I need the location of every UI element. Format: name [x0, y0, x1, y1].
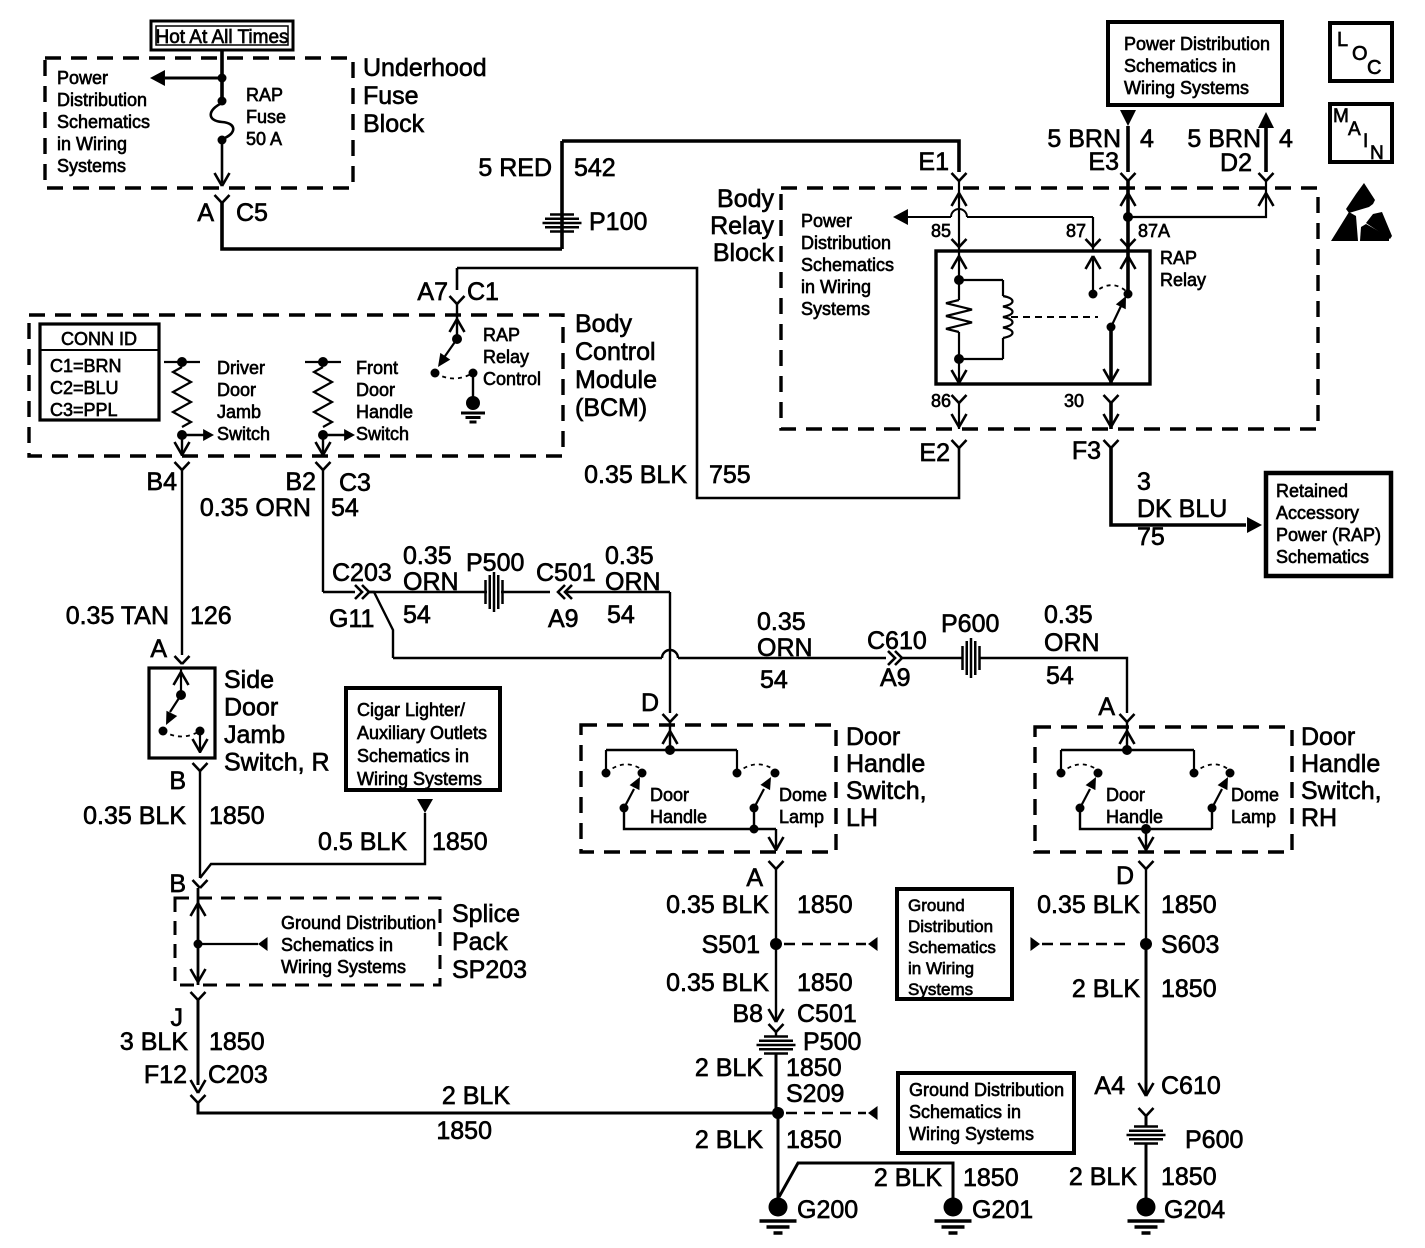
node relay 85 junction	[954, 275, 964, 285]
svg-text:C501: C501	[797, 1000, 857, 1028]
svg-text:Distribution: Distribution	[801, 233, 891, 253]
wire S501 to B8	[775, 944, 777, 1022]
wire S209 to G200	[777, 1113, 780, 1198]
svg-text:1850: 1850	[963, 1164, 1019, 1192]
svg-text:B8: B8	[732, 1000, 763, 1028]
svg-text:2 BLK: 2 BLK	[1072, 975, 1140, 1003]
reference box Ground Distribution Schematics in Wiring Systems	[897, 889, 1012, 999]
svg-text:ORN: ORN	[757, 634, 813, 662]
label Door Handle Switch LH	[846, 723, 927, 832]
svg-text:Handle: Handle	[846, 750, 925, 778]
svg-text:5 BRN: 5 BRN	[1187, 125, 1261, 153]
svg-text:C203: C203	[208, 1061, 268, 1089]
dashed link S603	[1030, 937, 1130, 951]
svg-text:Dome: Dome	[1231, 785, 1279, 805]
svg-text:DK BLU: DK BLU	[1137, 495, 1227, 523]
legend box LOC	[1330, 23, 1392, 81]
svg-text:A9: A9	[548, 605, 579, 633]
wire 0.35 TAN 126	[181, 470, 183, 655]
relay resistor	[946, 280, 972, 359]
label 0.35 BLK 1850 LH	[666, 891, 852, 919]
svg-text:4: 4	[1279, 125, 1293, 153]
svg-text:2 BLK: 2 BLK	[695, 1054, 763, 1082]
svg-text:E2: E2	[919, 439, 950, 467]
connector B side door	[169, 763, 207, 795]
svg-text:in Wiring: in Wiring	[801, 277, 871, 297]
wire pivot to pin 30	[1104, 327, 1119, 384]
svg-text:Schematics: Schematics	[1276, 547, 1369, 567]
svg-text:C2=BLU: C2=BLU	[50, 378, 119, 398]
ground in BCM	[461, 373, 485, 422]
svg-text:54: 54	[1046, 662, 1074, 690]
connector D2	[1220, 149, 1273, 181]
wire 2 BLK 1850 to S209	[198, 1103, 778, 1113]
wire P600 to A	[979, 658, 1127, 713]
svg-text:Schematics: Schematics	[57, 112, 150, 132]
in-arrow below D2	[1259, 193, 1274, 206]
svg-text:RAP: RAP	[246, 85, 283, 105]
wire 3 DK BLU 75	[1111, 448, 1262, 533]
label Door Handle Switch RH	[1301, 723, 1382, 832]
label Side Door Jamb Switch R	[224, 666, 330, 777]
label 0.35 BLK 1850 RH	[1037, 891, 1216, 919]
connector E3	[1088, 148, 1135, 181]
svg-text:E1: E1	[918, 148, 949, 176]
wire RH switch out	[1139, 829, 1154, 851]
svg-text:F12: F12	[144, 1061, 187, 1089]
body relay block dashed box	[781, 188, 1318, 429]
svg-text:M: M	[1333, 106, 1349, 127]
svg-text:Door: Door	[217, 380, 256, 400]
svg-text:3: 3	[1137, 468, 1151, 496]
svg-text:Switch, R: Switch, R	[224, 749, 330, 777]
connector A door handle LH	[746, 861, 783, 892]
svg-text:Block: Block	[363, 110, 425, 138]
svg-text:C501: C501	[536, 559, 596, 587]
svg-text:A: A	[746, 864, 763, 892]
connector pin 30	[1104, 395, 1119, 403]
svg-text:Body: Body	[717, 185, 774, 213]
label Dome Lamp LH	[779, 785, 827, 827]
svg-text:Jamb: Jamb	[224, 721, 285, 749]
connector C5	[197, 195, 268, 227]
label 0.35 ORN 54	[200, 494, 359, 522]
reference box Power Distribution Schematics in Wiring Systems	[1108, 22, 1282, 105]
relay coil	[959, 280, 1013, 359]
svg-text:Door: Door	[846, 723, 900, 751]
node RH switch out	[1141, 824, 1151, 834]
svg-text:1850: 1850	[1161, 1163, 1217, 1191]
in-arrow pin 87	[1086, 256, 1101, 269]
label 0.35 TAN 126	[66, 602, 232, 630]
svg-text:Fuse: Fuse	[246, 107, 286, 127]
svg-text:Schematics in: Schematics in	[357, 746, 469, 766]
svg-text:D: D	[641, 689, 659, 717]
svg-text:1850: 1850	[786, 1126, 842, 1154]
svg-text:G200: G200	[797, 1196, 858, 1224]
connector D door handle RH	[1116, 861, 1154, 890]
wire E3 87A	[1126, 181, 1130, 294]
label 30	[1064, 391, 1084, 411]
wire relay to pin 86	[952, 359, 967, 384]
wire front handle to B2	[316, 435, 331, 456]
wire C610 to P600	[902, 657, 963, 659]
svg-text:Handle: Handle	[356, 402, 413, 422]
splice node SP203	[194, 937, 268, 951]
wire upper ORN run	[369, 591, 550, 593]
wire E1 to relay pin 85	[958, 181, 960, 280]
svg-text:Systems: Systems	[57, 156, 126, 176]
svg-text:RH: RH	[1301, 804, 1337, 832]
connector pin 87	[1086, 239, 1101, 247]
svg-text:C: C	[1367, 57, 1381, 79]
wire 5 BRN to D2	[1258, 112, 1274, 172]
connector A door handle RH	[1098, 693, 1134, 722]
svg-text:G201: G201	[972, 1196, 1033, 1224]
reference text Power Distribution Schematics in Wiring Systems	[57, 68, 150, 176]
label RAP Relay Control	[483, 325, 541, 389]
svg-text:Schematics: Schematics	[801, 255, 894, 275]
svg-text:87A: 87A	[1138, 221, 1170, 241]
wire lower ORN run with hop	[393, 650, 886, 658]
wire 5 RED to E1	[562, 141, 959, 172]
svg-text:Wiring Systems: Wiring Systems	[357, 769, 482, 789]
svg-text:3 BLK: 3 BLK	[120, 1028, 188, 1056]
svg-text:B: B	[169, 767, 186, 795]
svg-text:Schematics in: Schematics in	[281, 935, 393, 955]
svg-text:2 BLK: 2 BLK	[442, 1082, 510, 1110]
svg-text:Body: Body	[575, 310, 632, 338]
wire 0.35 ORN 54 from C3	[322, 470, 324, 592]
svg-text:54: 54	[760, 666, 788, 694]
label B8 C501	[732, 1000, 856, 1028]
svg-text:75: 75	[1137, 523, 1165, 551]
connector C501 A9	[536, 559, 596, 633]
label 0.5 BLK 1850	[318, 828, 488, 856]
node RH feed	[1061, 745, 1194, 755]
svg-text:87: 87	[1066, 221, 1086, 241]
svg-text:Distribution: Distribution	[57, 90, 147, 110]
svg-text:Module: Module	[575, 366, 657, 394]
connector B8 C501	[769, 1009, 784, 1032]
driver door jamb switch resistor	[164, 357, 214, 441]
wire P600 to G204	[1145, 1143, 1148, 1198]
svg-text:A: A	[197, 199, 214, 227]
svg-text:Power: Power	[57, 68, 108, 88]
connector J	[171, 992, 206, 1032]
svg-text:Handle: Handle	[1106, 807, 1163, 827]
svg-text:A4: A4	[1094, 1072, 1125, 1100]
connector A4 C610	[1139, 1083, 1154, 1116]
label 3 DK BLU 75	[1137, 468, 1227, 551]
label 2 BLK 1850	[436, 1082, 510, 1145]
wire into RH switch	[1120, 722, 1135, 750]
svg-text:54: 54	[403, 601, 431, 629]
LH door handle switch	[602, 750, 777, 829]
reference box Retained Accessory Power RAP Schematics	[1266, 473, 1391, 576]
label 5 BRN 4 E3	[1047, 125, 1154, 153]
connector F12 C203	[191, 1080, 206, 1103]
relay switch travel arc	[1093, 285, 1126, 294]
svg-text:P500: P500	[803, 1028, 861, 1056]
svg-text:0.35: 0.35	[605, 542, 654, 570]
svg-text:SP203: SP203	[452, 956, 527, 984]
relay switch armature	[1107, 296, 1127, 332]
svg-text:C610: C610	[867, 627, 927, 655]
label S209	[786, 1080, 844, 1108]
node contact 87	[1089, 290, 1098, 299]
svg-text:Wiring Systems: Wiring Systems	[909, 1124, 1034, 1144]
svg-text:G11: G11	[329, 605, 374, 633]
svg-text:542: 542	[574, 154, 616, 182]
svg-text:C5: C5	[236, 199, 268, 227]
svg-text:1850: 1850	[1161, 891, 1217, 919]
wire 87 feed	[1092, 217, 1094, 251]
label A4 C610	[1094, 1072, 1220, 1100]
svg-text:Switch,: Switch,	[846, 777, 927, 805]
out-arrow at fuse block edge	[215, 173, 230, 186]
svg-text:B2: B2	[285, 468, 316, 496]
RH dome lamp switch	[1190, 750, 1235, 829]
svg-text:0.5 BLK: 0.5 BLK	[318, 828, 407, 856]
svg-text:Wiring Systems: Wiring Systems	[281, 957, 406, 977]
svg-text:Relay: Relay	[710, 212, 774, 240]
label 2 BLK 1850 G200	[695, 1126, 842, 1154]
svg-text:Accessory: Accessory	[1276, 503, 1359, 523]
svg-text:C3: C3	[339, 469, 371, 497]
connector A side door	[150, 635, 189, 664]
svg-text:ORN: ORN	[605, 568, 661, 596]
label 0.35 ORN 54 lower	[757, 608, 813, 694]
label 87	[1066, 221, 1086, 241]
label box Hot At All Times	[151, 21, 293, 50]
side door jamb switch	[159, 668, 208, 753]
svg-text:I: I	[1363, 131, 1368, 152]
svg-text:1850: 1850	[436, 1117, 492, 1145]
svg-text:Fuse: Fuse	[363, 82, 419, 110]
connector pin 87A	[1121, 239, 1136, 247]
relay actuate dashed link	[1011, 316, 1098, 318]
svg-text:1850: 1850	[209, 802, 265, 830]
connector C610 A9	[867, 627, 927, 692]
svg-text:Dome: Dome	[779, 785, 827, 805]
svg-text:0.35: 0.35	[757, 608, 806, 636]
svg-text:86: 86	[931, 391, 951, 411]
inline connector P100	[543, 208, 648, 236]
svg-text:Hot At All Times: Hot At All Times	[155, 27, 288, 48]
svg-text:Systems: Systems	[801, 299, 870, 319]
svg-text:Distribution: Distribution	[908, 917, 993, 936]
inline connector P600 lower	[1127, 1116, 1244, 1154]
reference text Power Distribution Schematics in Wiring Systems	[801, 211, 894, 319]
label Driver Door Jamb Switch	[217, 358, 270, 444]
label 0.35 BLK 755	[584, 461, 751, 489]
connector B4	[146, 462, 189, 496]
svg-text:Power: Power	[801, 211, 852, 231]
svg-text:LH: LH	[846, 804, 878, 832]
svg-text:RAP: RAP	[483, 325, 520, 345]
svg-text:A: A	[1098, 693, 1115, 721]
front door handle switch resistor	[305, 357, 355, 441]
label 2 BLK 1850 G201	[874, 1164, 1019, 1192]
label Underhood Fuse Block	[363, 54, 487, 138]
wire 5 RED riser	[560, 141, 564, 249]
wire down to D	[669, 592, 671, 713]
svg-text:Door: Door	[1301, 723, 1355, 751]
wire through splice	[191, 888, 206, 985]
svg-text:Jamb: Jamb	[217, 402, 261, 422]
label Dome Lamp RH	[1231, 785, 1279, 827]
connector B splice pack	[169, 870, 207, 898]
svg-text:A: A	[1348, 119, 1361, 140]
connector E2	[919, 439, 966, 467]
reference box Ground Distribution Schematics in Wiring Systems lower	[898, 1073, 1074, 1153]
label 3 BLK 1850	[120, 1028, 265, 1056]
label 2 BLK 1850 S603	[1072, 975, 1217, 1003]
BCM dashed box	[29, 315, 563, 456]
connector C203 G11	[329, 559, 392, 633]
svg-text:Door: Door	[356, 380, 395, 400]
label Door Handle RH	[1106, 785, 1163, 827]
wire 0.35 BLK 1850 to splice	[199, 771, 201, 878]
wire A to S501	[775, 869, 777, 944]
wire P500 to S209	[775, 1053, 778, 1113]
splice S603	[1140, 931, 1219, 959]
wire branch to G201	[779, 1163, 953, 1198]
in-arrow pin 85	[952, 256, 967, 269]
node contact 87A	[1124, 290, 1133, 299]
svg-text:1850: 1850	[797, 969, 853, 997]
svg-text:126: 126	[190, 602, 232, 630]
label Body Control Module BCM	[575, 310, 657, 422]
wire from Hot At All Times into fuse	[220, 50, 224, 101]
label 5 RED 542	[478, 154, 615, 182]
splice S209	[772, 1107, 784, 1119]
door handle switch RH dashed box	[1035, 727, 1292, 852]
connector D door handle LH	[641, 689, 678, 722]
svg-text:Schematics: Schematics	[908, 938, 996, 957]
LH dome lamp switch	[733, 750, 780, 834]
door handle switch LH dashed box	[581, 725, 836, 852]
svg-text:4: 4	[1140, 125, 1154, 153]
svg-text:O: O	[1352, 43, 1368, 65]
svg-text:G204: G204	[1164, 1196, 1225, 1224]
svg-text:Lamp: Lamp	[1231, 807, 1276, 827]
svg-text:Pack: Pack	[452, 928, 508, 956]
svg-text:0.35: 0.35	[403, 542, 452, 570]
dashed link S501	[784, 937, 878, 951]
reference box Cigar Lighter Auxiliary Outlets	[346, 688, 500, 790]
inline connector P500 lower	[757, 1028, 862, 1056]
label RAP Relay	[1160, 248, 1206, 290]
svg-text:P600: P600	[1185, 1126, 1243, 1154]
svg-text:D2: D2	[1220, 149, 1252, 177]
svg-text:0.35 BLK: 0.35 BLK	[666, 891, 769, 919]
svg-text:Door: Door	[224, 694, 278, 722]
wire S603 to A4	[1145, 944, 1148, 1096]
svg-text:Schematics in: Schematics in	[1124, 56, 1236, 76]
connector E1	[918, 148, 966, 181]
svg-text:Relay: Relay	[483, 347, 529, 367]
label 86	[931, 391, 951, 411]
svg-text:Splice: Splice	[452, 900, 520, 928]
svg-text:Handle: Handle	[650, 807, 707, 827]
svg-text:ORN: ORN	[1044, 629, 1100, 657]
svg-text:50 A: 50 A	[246, 129, 282, 149]
svg-text:D: D	[1116, 862, 1134, 890]
side door jamb switch box	[149, 668, 215, 758]
svg-text:Control: Control	[483, 369, 541, 389]
svg-text:755: 755	[709, 461, 751, 489]
wire pin 30 to F3	[1104, 403, 1119, 429]
arrow to power distribution schematics	[150, 70, 227, 86]
svg-text:Auxiliary Outlets: Auxiliary Outlets	[357, 723, 487, 743]
svg-text:0.35 BLK: 0.35 BLK	[584, 461, 687, 489]
connector B2 C3	[285, 462, 371, 497]
wire A7 feed	[456, 268, 459, 290]
svg-text:Front: Front	[356, 358, 398, 378]
out-arrow splice pack	[191, 969, 206, 982]
svg-text:(BCM): (BCM)	[575, 394, 647, 422]
svg-text:1850: 1850	[797, 891, 853, 919]
inline connector P600	[941, 610, 999, 678]
svg-text:F3: F3	[1072, 437, 1101, 465]
svg-text:30: 30	[1064, 391, 1084, 411]
svg-text:Systems: Systems	[908, 980, 973, 999]
label 2 BLK 1850 G204	[1069, 1163, 1217, 1191]
svg-text:S501: S501	[702, 931, 760, 959]
svg-text:in Wiring: in Wiring	[908, 959, 974, 978]
svg-text:0.35: 0.35	[1044, 601, 1093, 629]
in-arrow below E3	[1121, 193, 1136, 206]
svg-text:A7: A7	[417, 278, 448, 306]
svg-text:C1: C1	[467, 278, 499, 306]
svg-text:5 RED: 5 RED	[478, 154, 552, 182]
svg-text:Power Distribution: Power Distribution	[1124, 34, 1270, 54]
svg-text:P600: P600	[941, 610, 999, 638]
label Body Relay Block	[710, 185, 774, 267]
node 87A junction	[1123, 212, 1133, 222]
wire into LH switch	[663, 722, 678, 750]
svg-text:Side: Side	[224, 666, 274, 694]
svg-text:Door: Door	[650, 785, 689, 805]
svg-text:5 BRN: 5 BRN	[1047, 125, 1121, 153]
wire 87 to contact	[1092, 256, 1094, 294]
svg-text:Wiring Systems: Wiring Systems	[1124, 78, 1249, 98]
svg-text:85: 85	[931, 221, 951, 241]
RAP relay control switch	[431, 334, 478, 379]
svg-text:Switch: Switch	[356, 424, 409, 444]
svg-text:B: B	[169, 870, 186, 898]
label 0.35 BLK 1850 S501	[666, 969, 852, 997]
svg-text:0.35 ORN: 0.35 ORN	[200, 494, 311, 522]
svg-text:N: N	[1370, 143, 1384, 164]
wire into RAP relay control	[450, 304, 465, 339]
connector pin 86	[952, 395, 967, 403]
label 0.35 ORN 54 far right	[1044, 601, 1100, 690]
label 0.35 BLK 1850	[83, 802, 264, 830]
svg-text:L: L	[1337, 29, 1348, 51]
svg-text:1850: 1850	[786, 1054, 842, 1082]
wire 0.35 BLK 755 BCM to E2	[457, 268, 959, 498]
svg-text:Control: Control	[575, 338, 656, 366]
wire 3 BLK 1850	[197, 1000, 200, 1085]
svg-text:Cigar Lighter/: Cigar Lighter/	[357, 700, 465, 720]
svg-text:P100: P100	[589, 208, 647, 236]
svg-text:Lamp: Lamp	[779, 807, 824, 827]
svg-text:1850: 1850	[209, 1028, 265, 1056]
wire 5 BRN to E3	[1120, 110, 1136, 172]
